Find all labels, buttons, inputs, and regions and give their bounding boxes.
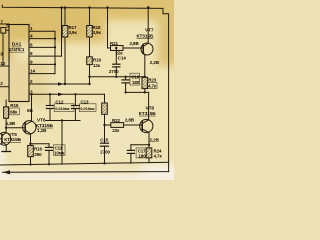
svg-text:R15: R15 xyxy=(10,103,19,108)
svg-text:КТ315Б: КТ315Б xyxy=(137,33,154,39)
svg-text:2,8В: 2,8В xyxy=(125,117,135,122)
svg-text:R22: R22 xyxy=(112,118,121,123)
svg-text:3,9к: 3,9к xyxy=(69,30,78,35)
svg-text:C11: C11 xyxy=(55,145,63,150)
svg-text:1,2В: 1,2В xyxy=(37,128,47,133)
svg-text:R23: R23 xyxy=(148,78,157,83)
svg-text:4,7к: 4,7к xyxy=(154,154,163,159)
svg-text:1,8В: 1,8В xyxy=(6,121,16,126)
svg-text:КТ315Б: КТ315Б xyxy=(4,137,21,143)
svg-text:C14: C14 xyxy=(118,55,127,60)
svg-text:2,2В: 2,2В xyxy=(150,60,160,65)
svg-text:VT7: VT7 xyxy=(145,28,154,34)
svg-text:68к: 68к xyxy=(10,110,18,115)
svg-text:VT6: VT6 xyxy=(37,118,46,124)
svg-text:2700: 2700 xyxy=(100,149,110,154)
svg-text:0,018мк: 0,018мк xyxy=(55,106,69,111)
svg-text:R19: R19 xyxy=(93,58,102,63)
svg-text:C16: C16 xyxy=(131,75,140,80)
svg-text:C15: C15 xyxy=(100,138,109,143)
svg-text:12к: 12к xyxy=(93,63,101,68)
svg-text:2,2В: 2,2В xyxy=(150,138,160,143)
svg-text:10: 10 xyxy=(0,61,5,66)
svg-text:3,9к: 3,9к xyxy=(93,30,102,35)
svg-text:14: 14 xyxy=(30,69,35,74)
svg-text:6В: 6В xyxy=(27,108,33,113)
svg-text:2,8В: 2,8В xyxy=(130,41,140,46)
svg-text:390: 390 xyxy=(34,152,42,157)
svg-text:174ПС1: 174ПС1 xyxy=(9,47,25,52)
svg-text:R21: R21 xyxy=(110,41,119,46)
svg-text:180: 180 xyxy=(132,80,140,85)
svg-text:4,7к: 4,7к xyxy=(148,84,157,89)
svg-text:10мк: 10мк xyxy=(54,151,65,156)
svg-text:2700: 2700 xyxy=(109,69,119,74)
svg-text:0,018мк: 0,018мк xyxy=(80,106,94,111)
svg-text:22к: 22к xyxy=(112,128,120,133)
svg-text:VT8: VT8 xyxy=(146,106,155,112)
svg-text:КТ315Б: КТ315Б xyxy=(139,111,156,117)
